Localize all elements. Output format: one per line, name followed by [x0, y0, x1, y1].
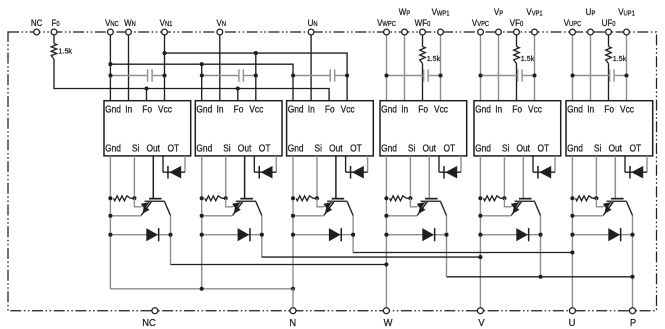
op-amp U5 gate-driver IC box	[474, 101, 561, 156]
svg-text:Vcc: Vcc	[434, 104, 448, 115]
node: rail-resistor junction	[384, 196, 388, 200]
node: FWD cathode junction	[538, 233, 542, 237]
wire: UP input wire to driver 6 In	[590, 35, 592, 101]
wire: N bus joining low-side emitters	[110, 288, 293, 290]
node: junction P bus at V-high collector	[538, 275, 542, 279]
transistor Q2 IGBT (V-low)	[240, 198, 253, 200]
wire: N bus stub to N terminal	[292, 289, 294, 308]
wire: emitter/Gnd rail of V-low block	[201, 156, 203, 289]
resistor R6 gate-sense resistor	[576, 196, 593, 201]
resistor 1.5k on UF0 line	[608, 35, 610, 47]
resistor 1.5k on WF0 line	[422, 35, 424, 47]
wire: VUPC wire to driver 6 Gnd	[572, 35, 574, 101]
node: rail-resistor junction	[478, 196, 482, 200]
wire: VWP1 wire to driver 4 Vcc	[440, 35, 442, 101]
node: rail-resistor junction	[108, 196, 112, 200]
svg-text:Vcc: Vcc	[620, 104, 634, 115]
svg-text:OT: OT	[444, 143, 456, 154]
node: cap C1 right junction	[162, 73, 166, 77]
node: FWD anode junction	[478, 233, 482, 237]
diode D6t OT sense diode	[624, 156, 626, 172]
op-amp U4 gate-driver IC box	[380, 101, 467, 156]
wire: driver 2 Fo stub	[237, 89, 239, 101]
wire: UF0 wire to driver 6 Fo	[608, 64, 610, 101]
resistor R4 gate-sense resistor	[390, 196, 407, 201]
svg-text:Vcc: Vcc	[528, 104, 542, 115]
transistor Q1 IGBT (W-low)	[149, 198, 162, 200]
op-amp U6 gate-driver IC box	[566, 101, 653, 156]
terminal WN	[126, 29, 132, 35]
terminal VF0	[514, 29, 520, 35]
svg-text:Fo: Fo	[142, 104, 152, 115]
op-amp U1 gate-driver IC box	[104, 101, 191, 156]
node: FWD cathode junction	[630, 233, 634, 237]
svg-text:Gnd: Gnd	[288, 143, 304, 154]
svg-text:Gnd: Gnd	[475, 104, 491, 115]
svg-text:Out: Out	[517, 143, 531, 154]
svg-text:OT: OT	[259, 143, 271, 154]
node: emitter-rail junction	[384, 214, 388, 218]
wire: emitter row Q4	[386, 215, 417, 217]
node: emitter-rail junction	[570, 214, 574, 218]
node: FWD anode junction	[384, 233, 388, 237]
terminal NC (bottom)	[152, 308, 158, 314]
diode D6 freewheel diode	[572, 234, 632, 236]
node: rail-resistor junction	[291, 196, 295, 200]
wire: Si sense stub U6	[595, 156, 597, 198]
wire: emitter/Gnd rail of U-high block	[571, 156, 573, 308]
svg-text:1.5k: 1.5k	[613, 54, 627, 63]
node: FWD cathode junction	[168, 233, 172, 237]
node: Si-resistor junction	[502, 196, 506, 200]
wire: collector lead Q2	[256, 202, 262, 216]
svg-text:Gnd: Gnd	[196, 104, 212, 115]
node: junction W rail	[384, 262, 388, 266]
svg-text:OT: OT	[630, 143, 642, 154]
node: cap C6 left junction	[570, 73, 574, 77]
node: cap C5 left junction	[478, 73, 482, 77]
wire: emitter/Gnd rail of W-low block	[109, 156, 111, 289]
svg-text:In: In	[217, 104, 224, 115]
terminal P (bottom)	[630, 308, 636, 314]
resistor 1.5k on F0 line	[53, 35, 55, 44]
resistor R3 gate-sense resistor	[296, 196, 313, 201]
svg-text:Vcc: Vcc	[341, 104, 355, 115]
wire: V-low collector to V terminal rail	[262, 256, 481, 258]
resistor R5 gate-sense resistor	[484, 196, 501, 201]
svg-text:N: N	[289, 318, 296, 329]
diode D5 freewheel diode	[480, 234, 540, 236]
node: Vcc bus junction at driver 2 Vcc	[254, 51, 258, 55]
wire: Out gate lead U5	[522, 156, 524, 198]
svg-text:Fo: Fo	[325, 104, 335, 115]
terminal VWPC	[384, 29, 390, 35]
svg-text:Gnd: Gnd	[381, 104, 397, 115]
wire: VVP1 wire to driver 5 Vcc	[534, 35, 536, 101]
op-amp U2 gate-driver IC box	[195, 101, 282, 156]
terminal V (bottom)	[477, 308, 483, 314]
node: FWD anode junction	[200, 233, 204, 237]
node: cap C4 left junction	[384, 73, 388, 77]
svg-text:Out: Out	[147, 143, 161, 154]
diode D2 freewheel diode	[202, 234, 262, 236]
svg-text:Vcc: Vcc	[158, 104, 172, 115]
node: emitter-rail junction	[478, 214, 482, 218]
diode D4t OT sense diode	[438, 156, 440, 172]
resistor R1 gate-sense resistor	[114, 196, 131, 201]
node: FWD cathode junction	[351, 233, 355, 237]
terminal VUP1	[624, 29, 630, 35]
wire: VNC wire to driver 1 Gnd	[109, 35, 111, 101]
node: junction U rail	[570, 250, 574, 254]
svg-text:Gnd: Gnd	[475, 143, 491, 154]
wire: driver 2 Gnd stub	[201, 64, 203, 101]
svg-text:Fo: Fo	[604, 104, 614, 115]
svg-text:NC: NC	[142, 318, 156, 329]
node: rail-resistor junction	[200, 196, 204, 200]
svg-text:Gnd: Gnd	[288, 104, 304, 115]
wire: emitter/Gnd rail of V-high block	[479, 156, 481, 308]
svg-text:In: In	[308, 104, 315, 115]
wire: Out gate lead U6	[614, 156, 616, 198]
node: Si-resistor junction	[594, 196, 598, 200]
svg-text:Out: Out	[609, 143, 623, 154]
wire: Out gate lead U4	[428, 156, 430, 198]
svg-text:Vcc: Vcc	[249, 104, 263, 115]
wire: emitter/Gnd rail of W-high block	[385, 156, 387, 308]
diode D2t OT sense diode	[253, 156, 255, 172]
node: Si-resistor junction	[132, 196, 136, 200]
svg-text:Gnd: Gnd	[381, 143, 397, 154]
wire: Out gate lead U2	[244, 156, 246, 198]
svg-text:NC: NC	[31, 17, 43, 28]
svg-text:Out: Out	[423, 143, 437, 154]
wire: VN input wire to driver 2 In	[219, 35, 221, 101]
node: junction N bus at U-low emitter	[291, 287, 295, 291]
wire: emitter row Q2	[202, 215, 233, 217]
wire: VVPC wire to driver 5 Gnd	[480, 35, 482, 101]
wire: collector lead Q6	[627, 202, 633, 216]
diode D3 freewheel diode	[293, 234, 353, 236]
node: Fo bus junction driver 2	[236, 86, 240, 90]
svg-text:Out: Out	[329, 143, 343, 154]
wire: driver 2 Vcc stub	[255, 53, 257, 101]
terminal UN	[308, 29, 314, 35]
svg-text:Si: Si	[132, 143, 139, 154]
svg-text:OT: OT	[168, 143, 180, 154]
wire: Out gate lead U1	[152, 156, 154, 198]
svg-text:OT: OT	[350, 143, 362, 154]
node: cap C3 left junction	[291, 73, 295, 77]
svg-text:W: W	[384, 318, 394, 329]
node: FWD cathode junction	[444, 233, 448, 237]
wire: W-low collector to W terminal rail	[171, 264, 387, 266]
diode D4 freewheel diode	[386, 234, 446, 236]
terminal U (bottom)	[569, 308, 575, 314]
node: Si-resistor junction	[408, 196, 412, 200]
wire: collector lead Q1	[165, 202, 171, 216]
wire: VF0 wire to driver 5 Fo	[516, 64, 518, 101]
node: Si-resistor junction	[224, 196, 228, 200]
node: junction V rail	[478, 255, 482, 259]
wire: P bus joining high-side collectors	[447, 276, 633, 278]
node: cap C2 right junction	[254, 73, 258, 77]
node: rail-resistor junction	[570, 196, 574, 200]
node: Si-resistor junction	[315, 196, 319, 200]
capacitor C1 across driver 1 supply	[111, 75, 147, 77]
terminal VVPC	[478, 29, 484, 35]
svg-text:Si: Si	[502, 143, 509, 154]
wire: emitter/Gnd rail of U-low block	[292, 156, 294, 289]
svg-text:Gnd: Gnd	[196, 143, 212, 154]
wire: VUP1 wire to driver 6 Vcc	[626, 35, 628, 101]
terminal VWP1	[438, 29, 444, 35]
capacitor C3 across driver 3 supply	[293, 75, 329, 77]
diode D1t OT sense diode	[162, 156, 164, 172]
svg-text:Gnd: Gnd	[105, 104, 121, 115]
terminal VP	[496, 29, 502, 35]
wire: Si sense stub U3	[316, 156, 318, 198]
wire: collector lead Q5	[535, 202, 541, 216]
node: emitter-rail junction	[108, 214, 112, 218]
svg-text:Si: Si	[315, 143, 322, 154]
transistor Q6 IGBT (U-high)	[611, 198, 624, 200]
svg-text:V: V	[478, 318, 485, 329]
node: emitter-rail junction	[291, 214, 295, 218]
svg-text:1.5k: 1.5k	[521, 54, 535, 63]
terminal VUPC	[570, 29, 576, 35]
svg-text:Fo: Fo	[512, 104, 522, 115]
node: FWD anode junction	[570, 233, 574, 237]
wire: UN input wire to driver 3 In	[310, 35, 312, 101]
resistor 1.5k on VF0 line	[516, 35, 518, 47]
wire: Si sense stub U2	[225, 156, 227, 198]
terminal WP	[402, 29, 408, 35]
svg-text:Out: Out	[238, 143, 252, 154]
node: junction N bus at V-low emitter	[200, 287, 204, 291]
node: cap C3 right junction	[345, 73, 349, 77]
capacitor C4 across driver 4 supply	[387, 75, 423, 77]
node: FWD anode junction	[291, 233, 295, 237]
wire: VNC ground bus for N-side drivers	[110, 64, 293, 101]
wire: Si sense stub U1	[133, 156, 135, 198]
wire: WN input wire to driver 1 In	[128, 35, 130, 101]
wire: Si sense stub U4	[409, 156, 411, 198]
terminal W (bottom)	[383, 308, 389, 314]
diode D5t OT sense diode	[532, 156, 534, 172]
svg-text:1.5k: 1.5k	[59, 46, 73, 55]
svg-text:In: In	[401, 104, 408, 115]
node: cap C5 right junction	[532, 73, 536, 77]
node: FWD anode junction	[108, 233, 112, 237]
node: cap C6 right junction	[624, 73, 628, 77]
wire: VWPC wire to driver 4 Gnd	[386, 35, 388, 101]
capacitor C5 across driver 5 supply	[481, 75, 517, 77]
wire: WP input wire to driver 4 In	[404, 35, 406, 101]
terminal VVP1	[532, 29, 538, 35]
svg-text:Gnd: Gnd	[105, 143, 121, 154]
terminal VNC	[108, 29, 114, 35]
wire: U-low collector to U terminal rail	[353, 252, 572, 254]
wire: VN1 wire to driver 1 Vcc	[164, 35, 166, 101]
capacitor C2 across driver 2 supply	[202, 75, 238, 77]
node: FWD cathode junction	[260, 233, 264, 237]
svg-text:In: In	[495, 104, 502, 115]
wire: driver 1 Fo stub	[146, 89, 148, 101]
svg-text:In: In	[587, 104, 594, 115]
svg-text:Si: Si	[408, 143, 415, 154]
diode D3t OT sense diode	[345, 156, 347, 172]
wire: emitter row Q1	[110, 215, 141, 217]
wire: WF0 wire to driver 4 Fo	[422, 64, 424, 101]
resistor R2 gate-sense resistor	[205, 196, 222, 201]
svg-text:Fo: Fo	[418, 104, 428, 115]
wire: emitter row Q6	[572, 215, 603, 217]
wire: collector lead Q3	[347, 202, 353, 216]
terminal VN1	[162, 29, 168, 35]
node: cap C4 right junction	[438, 73, 442, 77]
terminal UP	[588, 29, 594, 35]
svg-text:OT: OT	[538, 143, 550, 154]
node: cap C1 left junction	[108, 73, 112, 77]
svg-text:Fo: Fo	[234, 104, 244, 115]
diode D1 freewheel diode	[110, 234, 170, 236]
wire: collector lead Q4	[441, 202, 447, 216]
svg-text:P: P	[630, 318, 637, 329]
svg-text:U: U	[569, 318, 576, 329]
transistor Q5 IGBT (V-high)	[519, 198, 532, 200]
node: Fo bus junction driver 1	[144, 86, 148, 90]
op-amp U3 gate-driver IC box	[287, 101, 374, 156]
wire: Out gate lead U3	[335, 156, 337, 198]
wire: VP input wire to driver 5 In	[498, 35, 500, 101]
node: Gnd bus junction at VNC wire	[108, 62, 112, 66]
wire: emitter row Q3	[293, 215, 324, 217]
wire: F0 fault-output bus to N-side drivers	[54, 59, 329, 101]
svg-text:Si: Si	[594, 143, 601, 154]
capacitor C6 across driver 6 supply	[573, 75, 609, 77]
svg-text:In: In	[125, 104, 132, 115]
svg-text:Gnd: Gnd	[567, 143, 583, 154]
terminal UF0	[606, 29, 612, 35]
node: junction P bus at U-high collector	[630, 275, 634, 279]
transistor Q4 IGBT (W-high)	[425, 198, 438, 200]
transistor Q3 IGBT (U-low)	[332, 198, 345, 200]
node: Vcc bus junction at VN1	[162, 51, 166, 55]
terminal WF0	[420, 29, 426, 35]
terminal VN	[217, 29, 223, 35]
svg-text:Si: Si	[223, 143, 230, 154]
wire: VN1 Vcc bus for N-side drivers	[165, 53, 348, 101]
wire: Si sense stub U5	[503, 156, 505, 198]
svg-text:Gnd: Gnd	[567, 104, 583, 115]
terminal N (bottom)	[290, 308, 296, 314]
terminal F0	[51, 29, 57, 35]
terminal NC	[34, 29, 40, 35]
node: cap C2 left junction	[200, 73, 204, 77]
node: Gnd bus junction at driver 2 Gnd	[200, 62, 204, 66]
node: emitter-rail junction	[200, 214, 204, 218]
wire: emitter row Q5	[480, 215, 511, 217]
svg-text:1.5k: 1.5k	[427, 54, 441, 63]
